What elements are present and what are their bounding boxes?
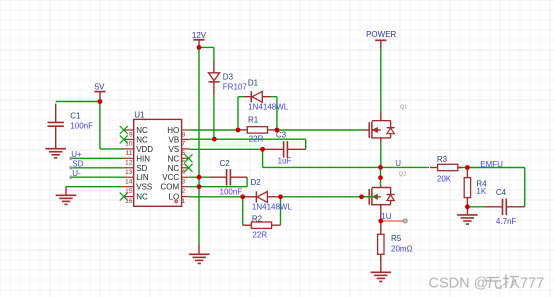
svg-text:22R: 22R: [252, 230, 267, 239]
wire VCC: [190, 176, 210, 178]
svg-text:22R: 22R: [249, 135, 264, 144]
svg-text:VS: VS: [169, 145, 180, 154]
junction D2 left: [240, 194, 245, 199]
U1 LO pin dot: [174, 200, 178, 204]
svg-text:LIN: LIN: [136, 173, 149, 182]
svg-text:4: 4: [181, 169, 185, 176]
svg-text:Q1: Q1: [400, 105, 407, 111]
net label U-: [72, 169, 81, 178]
U1 pin stubs right: [182, 130, 190, 197]
svg-text:6: 6: [181, 150, 185, 157]
net label SD: [72, 159, 83, 168]
svg-text:1K: 1K: [476, 187, 486, 196]
svg-text:R1: R1: [248, 115, 259, 124]
svg-text:11: 11: [126, 150, 133, 157]
junction Q2 gate: [359, 194, 364, 199]
svg-text:U1: U1: [134, 110, 145, 119]
diode D1 1N4148WL: [244, 78, 289, 111]
resistor R4: [464, 168, 487, 207]
junction VCC rail: [197, 175, 202, 180]
wire LO to D2: [190, 196, 243, 198]
svg-text:C2: C2: [220, 159, 231, 168]
junction R4-C4: [465, 204, 470, 209]
wire R4 bottom to C4: [467, 206, 484, 208]
no-connect X pin 9: [120, 126, 128, 134]
svg-text:C4: C4: [496, 188, 507, 197]
svg-text:NC: NC: [168, 154, 180, 163]
wire EMFU: [467, 168, 524, 207]
transistor Q2: [362, 172, 407, 222]
U1 pin names: [136, 126, 179, 202]
junction node U: [378, 165, 383, 170]
svg-text:NC: NC: [136, 135, 148, 144]
wire R1 to Q1 gate: [277, 129, 363, 131]
svg-text:1U: 1U: [381, 212, 391, 221]
watermark CSDN: [429, 275, 545, 292]
wire VSS to ground: [66, 186, 124, 188]
svg-text:13: 13: [125, 169, 133, 176]
svg-text:HIN: HIN: [136, 154, 150, 163]
svg-text:SD: SD: [72, 159, 83, 168]
junction COM rail: [197, 184, 202, 189]
svg-text:R5: R5: [391, 234, 402, 243]
svg-text:SD: SD: [136, 164, 147, 173]
svg-text:R2: R2: [252, 215, 263, 224]
net label 1U: [381, 212, 391, 221]
svg-text:5V: 5V: [95, 82, 105, 91]
svg-text:8: 8: [181, 131, 185, 138]
wire 12V rail vertical: [198, 47, 200, 244]
capacitor C1: [48, 104, 94, 131]
svg-text:VB: VB: [169, 135, 180, 144]
power port 12V: [192, 31, 207, 48]
wire LIN input: [69, 176, 124, 179]
svg-text:VSS: VSS: [136, 183, 152, 192]
wire R2 loop left: [242, 197, 244, 225]
svg-text:1: 1: [181, 198, 185, 205]
wire node U to Q2 drain: [380, 167, 382, 186]
ground R5: [371, 254, 392, 281]
svg-text:D2: D2: [251, 178, 262, 187]
svg-text:NC: NC: [168, 164, 180, 173]
net label EMFU: [480, 160, 503, 169]
wire VS: [190, 148, 263, 150]
svg-text:1N4148WL: 1N4148WL: [252, 203, 293, 212]
junction R3-R4: [465, 165, 470, 170]
svg-text:777: 777: [520, 276, 544, 292]
svg-text:9: 9: [129, 131, 133, 138]
no-connect X pin 4: [185, 164, 193, 172]
svg-text:100nF: 100nF: [70, 122, 93, 131]
wire 1U stub: [381, 219, 407, 223]
svg-text:20K: 20K: [437, 174, 452, 183]
wire D2 to Q2 gate: [281, 196, 378, 198]
power port POWER: [366, 30, 396, 48]
wire D3 cathode to VB: [213, 95, 215, 139]
svg-text:U-: U-: [72, 169, 81, 178]
svg-text:D3: D3: [223, 73, 234, 82]
wire 5V to C1 and VDD: [56, 102, 124, 149]
wire D1 right branch: [271, 97, 277, 130]
wire POWER to Q1 drain: [380, 49, 382, 112]
wire 12V to D3: [199, 47, 214, 61]
svg-text:COM: COM: [161, 183, 180, 192]
junction VS-C3: [260, 147, 265, 152]
no-connect X pin 16: [120, 193, 128, 201]
svg-text:1N4148WL: 1N4148WL: [248, 102, 289, 111]
svg-text:HO: HO: [167, 126, 179, 135]
svg-text:D1: D1: [248, 78, 259, 87]
wire D1 left branch: [238, 97, 244, 130]
wire VS down to node U: [262, 149, 264, 167]
wire VB: [190, 139, 306, 149]
diode D3 FR107: [208, 62, 247, 96]
wire C2 to COM: [190, 177, 248, 187]
svg-text:NC: NC: [136, 193, 148, 202]
svg-text:CSDN @: CSDN @: [429, 276, 489, 292]
no-connect X pin 10: [120, 135, 128, 143]
wire SD input: [69, 166, 124, 169]
ground R4: [457, 207, 478, 224]
wire HIN input: [69, 157, 124, 160]
net label U+: [71, 150, 82, 159]
wire R2 loop right: [280, 197, 282, 225]
svg-text:U+: U+: [71, 150, 82, 159]
svg-text:FR107: FR107: [223, 82, 248, 91]
ground COM rail: [189, 244, 210, 263]
svg-text:20mΩ: 20mΩ: [391, 245, 413, 254]
svg-text:C1: C1: [70, 111, 81, 120]
junction Q2 drain: [378, 175, 383, 180]
svg-text:14: 14: [125, 179, 133, 186]
svg-text:LO: LO: [169, 193, 180, 202]
junction R1 right: [275, 128, 280, 133]
svg-text:U: U: [395, 159, 401, 168]
resistor R2: [243, 215, 281, 240]
svg-text:3: 3: [181, 179, 185, 186]
capacitor C3: [263, 131, 306, 166]
svg-text:100nF: 100nF: [220, 188, 243, 197]
wire Q2 gate overlay: [362, 196, 378, 198]
junction D3-VB: [212, 137, 217, 142]
wire HO to R1: [190, 129, 238, 131]
capacitor C4: [485, 188, 525, 226]
power port 5V: [94, 82, 105, 101]
svg-text:VCC: VCC: [162, 173, 179, 182]
svg-text:12V: 12V: [192, 31, 207, 40]
junction D2 right: [278, 194, 283, 199]
svg-text:POWER: POWER: [366, 30, 396, 39]
svg-text:7: 7: [181, 141, 185, 148]
ground C1: [45, 126, 66, 158]
U1 pin stubs left: [124, 130, 134, 197]
junction dot 5V: [98, 99, 103, 104]
capacitor C2: [209, 159, 247, 197]
wire node U horizontal: [263, 166, 429, 168]
diode D2 1N4148WL: [243, 178, 293, 211]
junction R1 left: [236, 128, 241, 133]
resistor R1: [238, 115, 277, 143]
svg-text:2: 2: [181, 188, 185, 195]
resistor R5: [378, 221, 413, 260]
ground VSS: [56, 187, 77, 205]
no-connect X pin 5: [185, 154, 193, 162]
resistor R3: [430, 155, 462, 183]
svg-text:NC: NC: [136, 126, 148, 135]
svg-text:4.7nF: 4.7nF: [496, 217, 517, 226]
op-amp U1 IR2104 body: [134, 110, 182, 206]
svg-text:Q2: Q2: [399, 172, 406, 178]
svg-text:5: 5: [181, 160, 185, 167]
svg-text:EMFU: EMFU: [480, 160, 503, 169]
wire R3 to R4 junction: [458, 167, 468, 169]
svg-text:1uF: 1uF: [278, 157, 292, 166]
junction 1U: [378, 219, 383, 224]
U1 pin numbers: [125, 131, 185, 205]
net label U: [395, 159, 401, 168]
transistor Q1: [362, 105, 407, 142]
svg-text:R3: R3: [437, 155, 448, 164]
svg-text:VDD: VDD: [136, 145, 153, 154]
junction dot 12V: [197, 45, 202, 50]
svg-text:12: 12: [125, 160, 133, 167]
wire Q1 source to node U: [380, 142, 382, 167]
